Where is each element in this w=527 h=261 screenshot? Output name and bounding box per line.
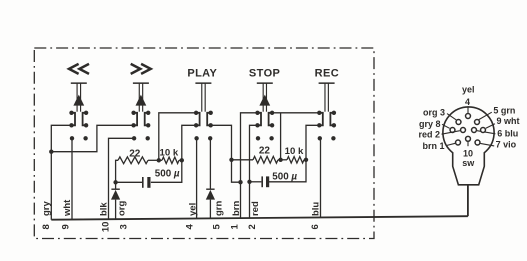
wire R3 left lead	[232, 159, 254, 161]
capacitor C2 500u plates	[261, 176, 263, 187]
junction R3-R4	[278, 158, 282, 162]
resistor R4 10 k	[287, 157, 304, 163]
svg-text:6: 6	[310, 224, 321, 229]
pushbutton switch S4 (STOP) with return arrow	[257, 82, 273, 84]
svg-text:org: org	[117, 201, 128, 217]
resistor R1 22 ohm	[118, 157, 148, 164]
svg-text:10: 10	[100, 222, 111, 233]
svg-text:PLAY: PLAY	[187, 67, 217, 79]
svg-text:gry: gry	[41, 201, 52, 217]
wire red from S4 lower-left contact	[250, 125, 258, 218]
dashed enclosure border	[34, 48, 374, 239]
junction red-C2	[247, 180, 251, 184]
svg-text:wht: wht	[62, 199, 73, 217]
wire plug cord	[467, 184, 469, 216]
wire step from R3-R4 junction up	[280, 113, 282, 160]
wire from S4 upper-right to S5 upper-left contact	[272, 112, 319, 114]
svg-text:10: 10	[463, 148, 473, 158]
svg-text:5: 5	[211, 223, 222, 229]
wire R2 right lead	[179, 159, 182, 161]
junction brn-R3	[229, 158, 233, 162]
svg-text:gry 8: gry 8	[419, 119, 441, 129]
pushbutton switch S2 (fast-forward) with return arrow	[133, 82, 149, 84]
svg-text:brn: brn	[231, 201, 242, 217]
svg-text:1: 1	[229, 223, 240, 229]
label "&lt;&lt;" rewind button	[69, 64, 79, 74]
connector pin 4	[467, 106, 469, 113]
connector pin 10	[467, 142, 469, 146]
wire C2 left lead to red wire	[250, 181, 262, 183]
label "&gt;&gt;" fast-forward button	[131, 64, 141, 74]
wire org from node A through D1 to cable	[115, 182, 117, 188]
pushbutton switch S3 (PLAY)	[195, 82, 211, 84]
wire R2 left lead	[159, 159, 162, 161]
wire blk from S2 left free contact	[109, 138, 135, 219]
svg-text:4: 4	[465, 97, 470, 107]
svg-text:500 µ: 500 µ	[272, 171, 297, 182]
wire from S4 upper-left contact down to cable (brn)	[241, 113, 258, 218]
wire R1 left lead down to node A	[116, 160, 118, 182]
svg-text:sw: sw	[462, 158, 475, 168]
svg-text:3: 3	[118, 224, 129, 229]
cable bus line to connector	[51, 216, 468, 220]
svg-text:6 blu: 6 blu	[497, 128, 518, 138]
svg-text:22: 22	[259, 146, 271, 157]
svg-text:10 k: 10 k	[160, 148, 179, 159]
svg-text:5 grn: 5 grn	[493, 105, 515, 115]
svg-text:9: 9	[60, 224, 71, 229]
svg-text:8: 8	[41, 224, 52, 229]
connector pin 1	[446, 143, 455, 145]
wire C1 left lead	[116, 181, 142, 183]
wire step from R1-R2 junction up to S3 upper-left contact	[159, 113, 196, 161]
junction R2-right	[180, 158, 184, 162]
connector pin 3	[447, 114, 456, 120]
svg-text:blu: blu	[310, 202, 321, 216]
connector pin 8	[442, 124, 450, 128]
wire yel from S3 left free contact	[196, 138, 198, 218]
pushbutton switch S5 (REC)	[319, 82, 335, 84]
wire gry branch to S2 lower-left contact	[51, 125, 133, 151]
connector pin 5	[479, 112, 492, 119]
diode D2 on grn wire	[206, 189, 214, 190]
connector pin 2	[442, 131, 460, 135]
svg-text:4: 4	[184, 223, 195, 229]
diode D1 on org wire	[111, 189, 119, 190]
wire grn from S3 right free contact through D2	[209, 138, 211, 188]
junction node A (R1/C1/D1)	[113, 180, 117, 184]
svg-text:yel: yel	[462, 84, 475, 94]
svg-text:blk: blk	[98, 202, 109, 216]
svg-text:2: 2	[247, 224, 258, 229]
junction R1-R2	[157, 158, 161, 162]
connector pin 7	[480, 143, 494, 146]
svg-text:REC: REC	[315, 67, 339, 79]
svg-text:STOP: STOP	[249, 67, 280, 79]
junction R4-right	[304, 158, 308, 162]
svg-text:22: 22	[129, 148, 141, 159]
wire R4 right lead	[304, 159, 306, 161]
connector pin 6	[477, 131, 495, 134]
resistor R2 10 k	[162, 157, 179, 163]
wire blu from S5 left free contact	[320, 138, 322, 217]
svg-text:7 vio: 7 vio	[496, 140, 517, 150]
junction brn jog	[238, 180, 242, 184]
pushbutton switch S1 (rewind) with return arrow	[71, 82, 87, 84]
svg-text:org 3: org 3	[423, 107, 445, 117]
resistor R3 22 ohm	[253, 156, 278, 163]
svg-text:yel: yel	[188, 203, 199, 216]
wire R3-R4 link	[278, 159, 287, 161]
svg-text:grn: grn	[214, 201, 225, 217]
wire wht from S1 left free contact	[71, 138, 73, 219]
wire brn from S3 lower-right contact	[211, 125, 241, 182]
capacitor C1 500u plates	[142, 177, 144, 188]
svg-text:500 µ: 500 µ	[155, 169, 180, 180]
junction gry branch	[49, 150, 53, 154]
wire gry net from S1 lower-left contact	[51, 125, 71, 219]
svg-text:10 k: 10 k	[285, 146, 304, 157]
connector pin 9	[486, 124, 495, 129]
connector plug body outline	[443, 107, 494, 185]
svg-text:red: red	[250, 201, 261, 216]
wire from S5 lower-left contact down through R4 right end to C2	[269, 125, 319, 182]
wire from S3 lower-left contact down through R2 right end to C1	[151, 125, 196, 182]
svg-text:red 2: red 2	[418, 129, 440, 139]
wire R1 right lead	[148, 159, 159, 161]
svg-text:brn 1: brn 1	[422, 141, 444, 151]
svg-text:9 wht: 9 wht	[497, 116, 520, 126]
